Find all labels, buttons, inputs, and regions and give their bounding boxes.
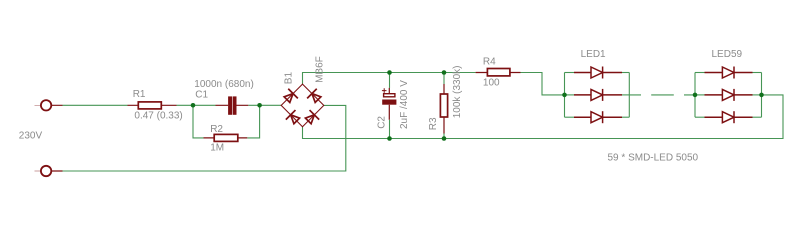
svg-text:MB6F: MB6F xyxy=(314,56,325,83)
svg-text:59 * SMD-LED 5050: 59 * SMD-LED 5050 xyxy=(608,152,699,163)
svg-text:LED1: LED1 xyxy=(581,49,606,60)
svg-text:230V: 230V xyxy=(19,130,43,141)
svg-text:R4: R4 xyxy=(483,57,496,68)
svg-text:R3: R3 xyxy=(428,117,439,130)
svg-text:100: 100 xyxy=(483,77,500,88)
svg-text:1M: 1M xyxy=(210,142,224,153)
svg-text:LED59: LED59 xyxy=(712,49,743,60)
svg-text:C2: C2 xyxy=(376,116,387,129)
svg-text:R1: R1 xyxy=(133,89,146,100)
svg-text:B1: B1 xyxy=(283,72,294,85)
svg-text:R2: R2 xyxy=(210,124,223,135)
svg-text:C1: C1 xyxy=(195,89,208,100)
svg-text:0.47 (0.33): 0.47 (0.33) xyxy=(134,110,182,121)
svg-text:100k (330k): 100k (330k) xyxy=(452,65,463,118)
svg-text:2uF /400 V: 2uF /400 V xyxy=(399,80,410,129)
